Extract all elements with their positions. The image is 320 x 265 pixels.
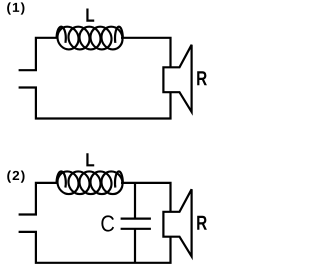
wire: circuit2 lower-left terminal stub, left vertical, bottom wire, right vertical up to speaker	[19, 232, 171, 263]
loop 3	[79, 171, 102, 194]
wire: capacitor branch lower lead	[134, 229, 136, 263]
label (2)	[7, 171, 24, 183]
label L (circuit 2)	[86, 153, 94, 166]
inductor L1 coil: lead-in half-loop	[57, 27, 66, 43]
loop 5	[101, 171, 124, 194]
wire: circuit2 upper-left terminal stub, left vertical, top wire into coil	[19, 183, 58, 215]
inductor L2 coil: lead-in half-loop	[57, 171, 66, 187]
label (1)	[7, 2, 24, 14]
wire: circuit2 top-right wire and right vertical down to speaker	[121, 183, 171, 212]
loop 4	[90, 171, 113, 194]
speaker R (circuit 1): driver box and cone	[163, 45, 191, 112]
loop 5	[101, 27, 124, 50]
capacitor C: bottom plate	[121, 228, 151, 230]
loop 2	[68, 171, 91, 194]
loop 3	[79, 27, 102, 50]
inductor L2 coil: lead-out half-loop	[115, 171, 123, 187]
loop 4	[90, 27, 113, 50]
label R (circuit 2)	[197, 216, 207, 230]
loop 2	[68, 27, 91, 50]
capacitor C: top plate	[121, 218, 151, 220]
wire: circuit1 lower-left terminal stub, left vertical, bottom wire, right vertical up to speaker	[19, 88, 171, 119]
label C	[101, 215, 114, 231]
inductor L1 coil: lead-out half-loop	[115, 27, 123, 43]
loop 1	[57, 171, 80, 194]
label R (circuit 1)	[197, 71, 207, 85]
wire: circuit1 upper-left terminal stub, left vertical, top wire into coil	[19, 38, 58, 70]
inductor L2 coil loops	[57, 171, 124, 194]
wire: circuit1 top-right wire and right vertical down to speaker	[121, 38, 171, 68]
wire: capacitor branch upper lead	[134, 183, 136, 219]
inductor L1 coil loops	[57, 27, 124, 50]
label L (circuit 1)	[86, 8, 94, 21]
speaker R (circuit 2): driver box and cone	[163, 189, 191, 256]
loop 1	[57, 27, 80, 50]
